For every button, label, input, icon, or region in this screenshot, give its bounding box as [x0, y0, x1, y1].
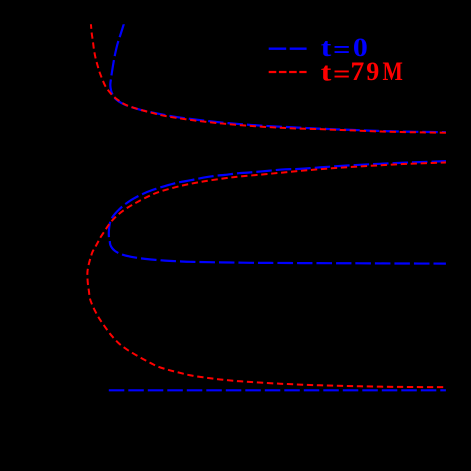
svg-text:7: 7 [351, 57, 365, 86]
svg-text:9: 9 [366, 57, 379, 86]
svg-text:=: = [333, 60, 350, 88]
svg-text:t: t [321, 58, 332, 87]
svg-text:M: M [383, 58, 403, 86]
